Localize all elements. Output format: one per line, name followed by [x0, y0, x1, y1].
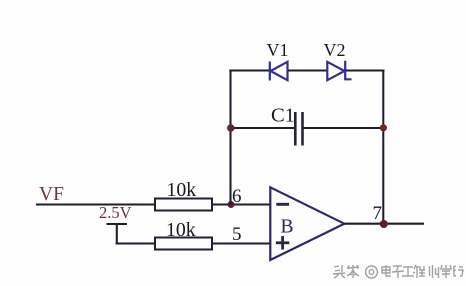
node junction C1 right dot	[380, 124, 387, 131]
wire 2.5V T-bar	[107, 223, 128, 225]
wire C1 right segment	[303, 127, 385, 129]
wire between V1 and V2	[288, 69, 327, 71]
node junction pin6 dot	[228, 201, 235, 208]
svg-text:C1: C1	[271, 105, 295, 127]
watermark 头条 @电子工程师笔记	[333, 265, 463, 278]
wire VF input horizontal	[36, 203, 155, 205]
svg-text:VF: VF	[39, 184, 64, 205]
op-amp inverting input minus sign	[276, 203, 289, 206]
wire feedback left vertical	[229, 70, 231, 205]
wire 2.5V horizontal to R2	[116, 242, 155, 244]
node junction C1 left dot	[227, 124, 234, 131]
svg-text:V1: V1	[267, 40, 289, 60]
diode V2	[327, 61, 351, 80]
resistor R2 10k	[155, 238, 212, 250]
svg-text:2.5V: 2.5V	[99, 203, 132, 222]
op-amp non-inverting input plus sign	[276, 236, 290, 250]
wire C1 left segment	[229, 127, 295, 129]
svg-text:7: 7	[373, 203, 383, 224]
label V2	[324, 40, 346, 60]
label V1	[267, 40, 289, 60]
value label 10k (R2)	[166, 219, 196, 241]
resistor R1 10k	[155, 199, 212, 211]
svg-text:5: 5	[232, 224, 242, 245]
pin number 5	[232, 224, 242, 245]
wire R1 to pin 6	[212, 203, 270, 205]
pin number 6	[232, 186, 242, 207]
svg-text:V2: V2	[324, 40, 346, 60]
capacitor C1	[295, 112, 302, 146]
label C1	[271, 105, 295, 127]
svg-text:10k: 10k	[166, 219, 196, 241]
value label 10k (R1)	[167, 179, 197, 201]
wire R2 to pin 5	[212, 242, 270, 244]
svg-text:10k: 10k	[167, 179, 197, 201]
wire 2.5V vertical	[116, 224, 118, 244]
node junction output dot	[380, 220, 388, 228]
wire feedback top left segment	[229, 69, 269, 71]
wire op-amp output	[344, 223, 424, 225]
wire feedback right vertical	[382, 70, 384, 225]
op-amp U1 body	[270, 187, 344, 260]
wire feedback top right segment	[346, 69, 385, 71]
pin number 7	[373, 203, 383, 224]
node 2.5V label	[99, 203, 132, 222]
diode V1	[270, 62, 288, 81]
op-amp label B	[281, 217, 294, 238]
svg-text:B: B	[281, 217, 294, 238]
node VF label	[39, 184, 64, 205]
